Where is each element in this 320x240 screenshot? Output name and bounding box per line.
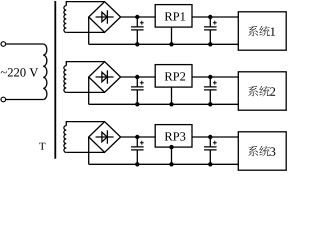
node [208, 15, 212, 19]
node [169, 162, 173, 166]
wire [66, 122, 104, 126]
regulator RP1 [155, 5, 192, 28]
transformer secondary winding S1 [64, 6, 66, 33]
wire [88, 17, 90, 44]
wire [171, 27, 173, 44]
capacitor C2 [204, 17, 217, 44]
node [169, 145, 173, 149]
node [169, 102, 173, 106]
node [135, 15, 139, 19]
capacitor C1 [131, 17, 144, 44]
wire [6, 43, 44, 45]
transformer T primary winding [43, 44, 47, 100]
node [208, 135, 212, 139]
wire [192, 76, 238, 78]
node [135, 102, 139, 106]
node [135, 162, 139, 166]
wire [89, 163, 239, 165]
node [135, 75, 139, 79]
wire [171, 147, 173, 164]
AC terminal (top) [1, 42, 6, 47]
system box 系统1 [238, 12, 286, 50]
bridge rectifier B3 [89, 122, 121, 153]
regulator RP3 [155, 125, 192, 148]
bridge rectifier B2 [89, 62, 121, 93]
AC terminal (bottom) [1, 97, 6, 102]
wire [121, 76, 156, 78]
wire [66, 151, 104, 153]
system box 系统2 [238, 72, 286, 110]
capacitor C4 [204, 77, 217, 104]
label ~220 V [1, 68, 38, 77]
transformer secondary winding S3 [64, 126, 66, 153]
wire [89, 103, 239, 105]
wire [66, 31, 104, 33]
node [169, 42, 173, 46]
wire [121, 16, 156, 18]
wire [66, 62, 104, 66]
bridge rectifier B1 [89, 2, 121, 33]
system box 系统3 [238, 132, 286, 170]
node [208, 162, 212, 166]
node [208, 102, 212, 106]
wire [88, 137, 90, 164]
label T [39, 143, 45, 150]
regulator RP2 [155, 65, 192, 88]
wire [66, 2, 104, 6]
wire [66, 91, 104, 93]
transformer secondary winding S2 [64, 66, 66, 93]
node [135, 135, 139, 139]
wire [171, 87, 173, 104]
node [208, 42, 212, 46]
capacitor C5 [131, 137, 144, 164]
wire [88, 77, 90, 104]
wire [89, 43, 239, 45]
wire [192, 16, 238, 18]
transformer core [54, 1, 56, 159]
node [135, 42, 139, 46]
wire [121, 136, 156, 138]
node [208, 75, 212, 79]
wire [6, 99, 44, 101]
capacitor C6 [204, 137, 217, 164]
wire [192, 136, 238, 138]
capacitor C3 [131, 77, 144, 104]
